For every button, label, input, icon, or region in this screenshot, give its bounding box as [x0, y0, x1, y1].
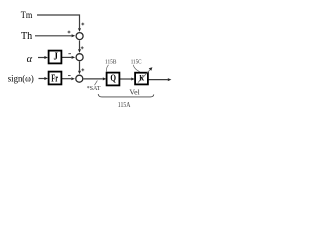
svg-text:α: α — [27, 54, 33, 65]
svg-text:*SAT: *SAT — [87, 85, 101, 92]
svg-text:Th: Th — [21, 30, 33, 42]
svg-text:K: K — [139, 73, 144, 83]
svg-text:115C: 115C — [131, 58, 142, 65]
svg-text:Fr: Fr — [51, 73, 58, 84]
svg-text:J: J — [54, 52, 58, 63]
svg-text:Q: Q — [110, 74, 116, 84]
svg-text:Vel: Vel — [129, 88, 139, 97]
svg-text:sign(ω): sign(ω) — [8, 74, 34, 84]
svg-text:115B: 115B — [105, 58, 116, 65]
svg-text:115A: 115A — [118, 101, 131, 109]
svg-text:Tm: Tm — [21, 11, 33, 21]
